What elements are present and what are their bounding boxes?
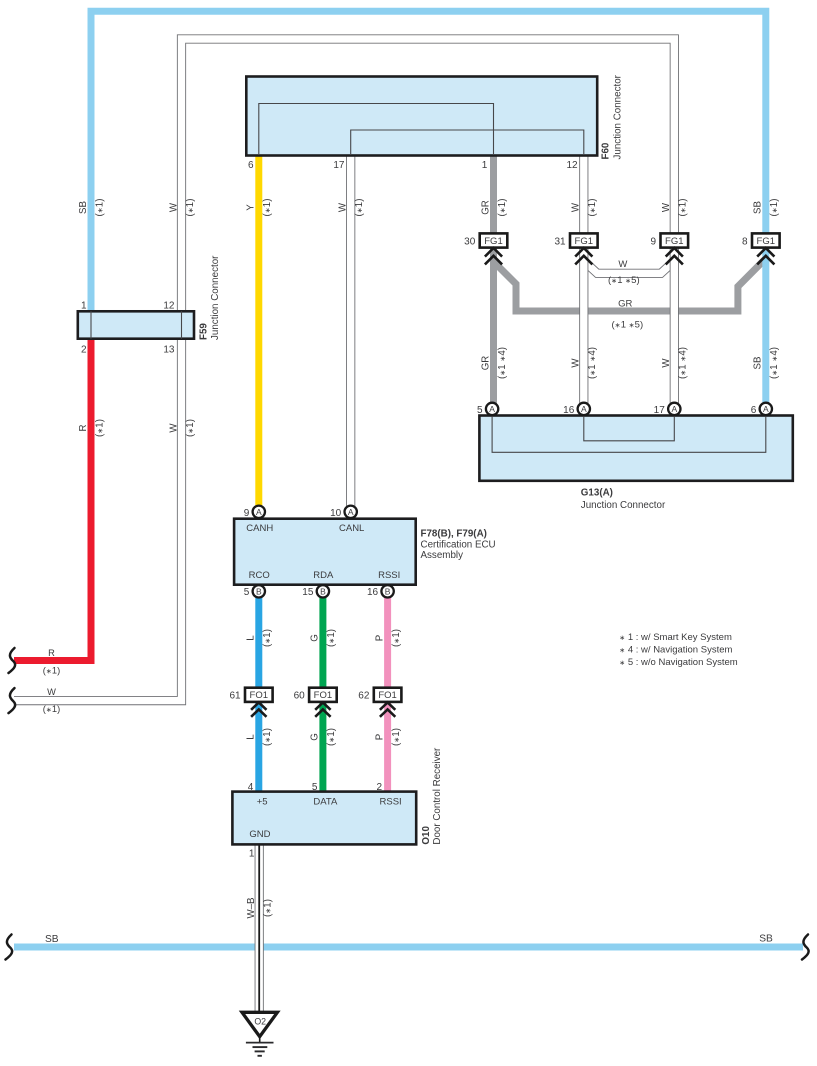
wire W from F60 pin 17 to ECU CANL pin 10 (346, 155, 355, 508)
G13 pin 5 (486, 403, 498, 415)
wire SB bottom bus (14, 944, 803, 951)
ground bars (246, 1042, 274, 1044)
ECU pin 9 CANH (253, 506, 265, 518)
svg-text:G: G (310, 634, 321, 642)
svg-text:W–B: W–B (246, 898, 257, 919)
svg-text:60: 60 (294, 691, 306, 702)
svg-text:GND: GND (249, 829, 270, 840)
svg-text:B: B (320, 587, 326, 597)
svg-text:(∗1): (∗1) (185, 419, 196, 437)
svg-text:CANL: CANL (339, 523, 364, 534)
svg-text:(∗1): (∗1) (262, 728, 273, 746)
svg-text:2: 2 (81, 345, 87, 356)
svg-text:W: W (661, 358, 672, 368)
brace SB bus left (6, 935, 13, 960)
svg-text:(∗1): (∗1) (94, 199, 105, 217)
svg-text:W: W (47, 687, 56, 697)
svg-text:5: 5 (244, 587, 250, 598)
svg-text:9: 9 (244, 508, 250, 519)
svg-text:RSSI: RSSI (378, 570, 400, 581)
svg-text:A: A (763, 404, 769, 414)
svg-text:R: R (48, 648, 55, 658)
svg-text:Certification ECU: Certification ECU (421, 540, 496, 551)
G13 internal bus pin 5 to pin 6 (492, 416, 766, 453)
svg-text:W: W (571, 202, 582, 212)
svg-text:∗ 4 : w/ Navigation System: ∗ 4 : w/ Navigation System (619, 645, 732, 656)
svg-text:(∗1): (∗1) (263, 899, 274, 917)
svg-text:+5: +5 (257, 797, 268, 808)
svg-text:61: 61 (229, 691, 241, 702)
brace SB bus right (802, 935, 809, 960)
svg-text:W: W (618, 259, 627, 270)
svg-text:5: 5 (477, 405, 483, 416)
svg-text:W: W (661, 202, 672, 212)
svg-text:17: 17 (333, 160, 345, 171)
ground O2 triangle (242, 1012, 277, 1036)
svg-text:Junction Connector: Junction Connector (581, 500, 666, 511)
svg-text:R: R (78, 425, 89, 432)
svg-text:(∗1): (∗1) (354, 199, 365, 217)
shield chevrons below FO1 61 (251, 702, 266, 709)
door control receiver O10 box (232, 792, 416, 845)
svg-text:(∗1): (∗1) (497, 199, 508, 217)
svg-text:(∗1 ∗5): (∗1 ∗5) (608, 275, 640, 286)
svg-text:(∗1): (∗1) (262, 199, 273, 217)
shield connector FG1 pin 31 (570, 233, 598, 247)
svg-text:W: W (168, 202, 179, 212)
wire P from ECU RSSI pin 16 to O10 pin 2 (384, 592, 391, 792)
svg-text:17: 17 (654, 405, 666, 416)
svg-text:F59: F59 (199, 323, 210, 340)
ECU pin 15 RDA (317, 585, 329, 597)
svg-text:16: 16 (563, 405, 575, 416)
svg-text:A: A (256, 507, 262, 517)
svg-text:(∗1 ∗4): (∗1 ∗4) (769, 347, 780, 379)
svg-text:(∗1): (∗1) (391, 629, 402, 647)
svg-text:(∗1 ∗5): (∗1 ∗5) (611, 320, 643, 331)
svg-text:9: 9 (651, 236, 657, 247)
svg-text:∗ 1 : w/ Smart Key System: ∗ 1 : w/ Smart Key System (619, 632, 732, 643)
svg-text:A: A (671, 404, 677, 414)
svg-text:F60: F60 (601, 142, 612, 159)
F60 internal bus pin 6 to pin 1 (259, 104, 494, 156)
svg-text:(∗1): (∗1) (326, 629, 337, 647)
svg-text:6: 6 (751, 405, 757, 416)
svg-text:(∗1): (∗1) (678, 199, 689, 217)
svg-text:31: 31 (554, 236, 566, 247)
svg-text:1: 1 (249, 849, 255, 860)
svg-text:A: A (489, 404, 495, 414)
shield connector FG1 pin 30 (480, 233, 508, 247)
svg-text:(∗1 ∗4): (∗1 ∗4) (678, 347, 689, 379)
ECU pin 5 RCO (253, 585, 265, 597)
svg-text:SB: SB (759, 934, 773, 945)
G13 internal bus pin 16 to pin 17 (584, 416, 675, 441)
ECU pin 10 CANL (345, 506, 357, 518)
shield chevrons below FG1 8 (757, 248, 774, 257)
shield connector FO1 pin 61 (245, 688, 273, 702)
svg-text:(∗1): (∗1) (43, 704, 60, 714)
F60 internal bus pin 17 to pin 12 (351, 130, 584, 155)
shield connector FG1 pin 8 (752, 233, 780, 247)
svg-text:W: W (571, 358, 582, 368)
svg-text:GR: GR (480, 200, 491, 215)
svg-text:P: P (374, 635, 385, 641)
svg-text:15: 15 (302, 587, 314, 598)
wire L from ECU RCO pin 5 to O10 pin 4 (255, 592, 262, 792)
svg-text:O2: O2 (254, 1016, 266, 1026)
svg-text:F78(B), F79(A): F78(B), F79(A) (421, 528, 487, 539)
svg-text:(∗1): (∗1) (769, 199, 780, 217)
svg-text:FO1: FO1 (314, 690, 332, 701)
svg-text:Junction Connector: Junction Connector (612, 74, 623, 159)
svg-text:5: 5 (312, 782, 318, 793)
junction connector G13(A) box (479, 416, 792, 481)
F59 internal pin 12-13 line (181, 311, 183, 338)
svg-text:RCO: RCO (249, 570, 270, 581)
G13 pin 6 (760, 403, 772, 415)
svg-text:SB: SB (753, 201, 764, 214)
wire G from ECU RDA pin 15 to O10 pin 5 (319, 592, 326, 792)
brace R wire left edge (9, 648, 16, 673)
svg-text:(∗1): (∗1) (185, 199, 196, 217)
svg-text:O10: O10 (421, 826, 432, 845)
svg-text:30: 30 (464, 236, 476, 247)
svg-text:(∗1): (∗1) (43, 666, 60, 676)
svg-text:10: 10 (330, 508, 342, 519)
svg-text:2: 2 (377, 782, 383, 793)
svg-text:Y: Y (246, 204, 257, 211)
shield chevrons below FG1 30 (485, 248, 502, 257)
ECU pin 16 RSSI (381, 585, 393, 597)
svg-text:12: 12 (566, 160, 578, 171)
svg-text:GR: GR (618, 298, 632, 309)
svg-text:Assembly: Assembly (421, 550, 464, 561)
wire SB main loop: left side, top rail, right side down to G13 pin 6 (91, 11, 766, 404)
shield chevrons below FO1 60 (315, 702, 330, 709)
junction connector F60 box (246, 77, 597, 156)
wire W loop: F59 pins 12/13, top rail, down to FG1 9 / G13 pin 17 (14, 39, 674, 701)
wire Y from F60 pin 6 to ECU CANH pin 9 (255, 155, 262, 508)
svg-text:GR: GR (480, 356, 491, 371)
svg-text:RSSI: RSSI (380, 797, 402, 808)
svg-text:W: W (338, 202, 349, 212)
shield chevrons below FG1 31 (575, 248, 592, 257)
svg-text:G: G (310, 733, 321, 741)
svg-text:6: 6 (248, 160, 254, 171)
wire R from F59 pin 2 to left edge (14, 338, 91, 661)
shield connector FO1 pin 60 (309, 688, 337, 702)
G13 pin 16 (578, 403, 590, 415)
svg-text:W: W (168, 423, 179, 433)
svg-text:FG1: FG1 (484, 236, 502, 247)
svg-text:RDA: RDA (313, 570, 334, 581)
ground stem (259, 1037, 261, 1043)
svg-text:1: 1 (81, 301, 87, 312)
wire GR shield bus (*1 *5) (494, 258, 766, 311)
svg-text:(∗1): (∗1) (262, 629, 273, 647)
svg-text:SB: SB (45, 934, 59, 945)
svg-text:B: B (256, 587, 262, 597)
svg-text:FG1: FG1 (575, 236, 593, 247)
svg-text:L: L (246, 635, 257, 641)
svg-text:Door Control Receiver: Door Control Receiver (432, 747, 443, 845)
svg-text:4: 4 (248, 782, 254, 793)
svg-text:(∗1): (∗1) (391, 728, 402, 746)
svg-text:A: A (581, 404, 587, 414)
svg-text:SB: SB (753, 357, 764, 370)
svg-text:FG1: FG1 (665, 236, 683, 247)
shield connector FG1 pin 9 (661, 233, 689, 247)
svg-text:13: 13 (163, 345, 175, 356)
svg-text:FG1: FG1 (757, 236, 775, 247)
brace W wire left edge (9, 688, 16, 713)
svg-text:SB: SB (78, 201, 89, 214)
svg-text:(∗1 ∗4): (∗1 ∗4) (587, 347, 598, 379)
svg-text:16: 16 (367, 587, 379, 598)
shield chevrons below FO1 62 (380, 702, 395, 709)
wire W-B from O10 GND pin 1 to ground O2 (255, 844, 264, 1012)
svg-text:(∗1): (∗1) (94, 419, 105, 437)
wire W from F60 pin 12 to G13 pin 16 (579, 155, 588, 404)
svg-text:∗ 5 : w/o Navigation System: ∗ 5 : w/o Navigation System (619, 657, 738, 668)
G13 pin 17 (668, 403, 680, 415)
svg-text:(∗1 ∗4): (∗1 ∗4) (497, 347, 508, 379)
svg-text:1: 1 (482, 160, 488, 171)
svg-text:FO1: FO1 (378, 690, 396, 701)
shield connector FO1 pin 62 (374, 688, 402, 702)
svg-text:CANH: CANH (246, 523, 273, 534)
svg-text:62: 62 (358, 691, 370, 702)
ECU F78(B),F79(A) box (234, 519, 416, 585)
wire W bus (*1 *5) between FG1 31 and FG1 9 (584, 261, 675, 273)
svg-text:DATA: DATA (313, 797, 338, 808)
svg-text:Junction Connector: Junction Connector (210, 255, 221, 340)
svg-text:12: 12 (163, 301, 175, 312)
F59 internal pin 1-2 line (90, 311, 92, 338)
svg-text:FO1: FO1 (250, 690, 268, 701)
shield chevrons below FG1 9 (666, 248, 683, 257)
svg-text:(∗1): (∗1) (326, 728, 337, 746)
junction connector F59 box (78, 311, 194, 338)
svg-text:A: A (348, 507, 354, 517)
wire GR from F60 pin 1 to G13 pin 5 (490, 155, 497, 404)
svg-text:(∗1): (∗1) (587, 199, 598, 217)
svg-text:8: 8 (742, 236, 748, 247)
svg-text:B: B (385, 587, 391, 597)
svg-text:P: P (374, 734, 385, 740)
svg-text:G13(A): G13(A) (581, 487, 613, 498)
svg-text:L: L (246, 734, 257, 740)
